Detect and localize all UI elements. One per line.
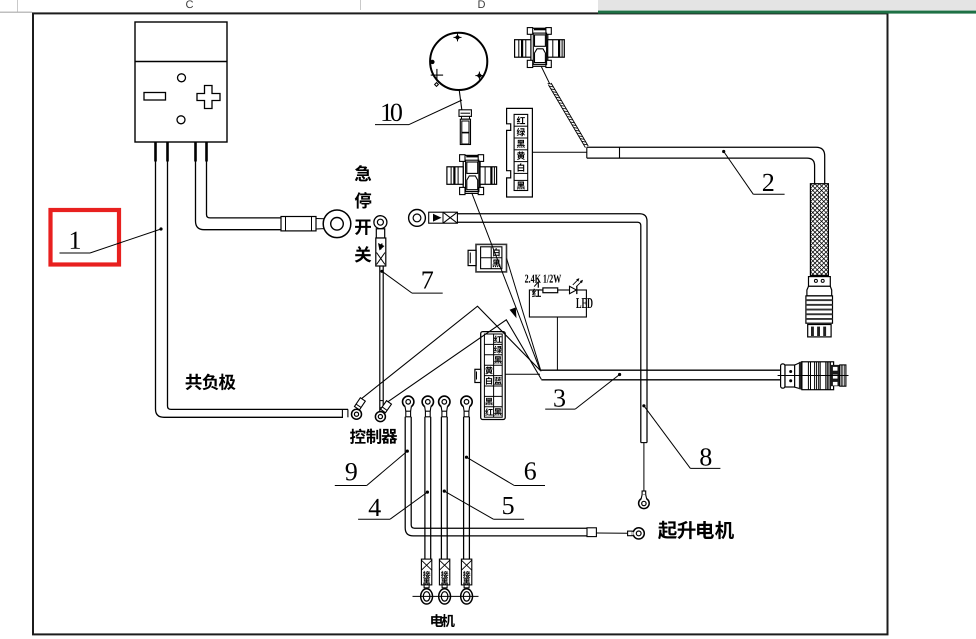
controller terminal 1: [354, 398, 365, 410]
switch crimp: [376, 229, 384, 238]
switch ring terminal: [374, 216, 387, 229]
positive cable crimp: [281, 217, 316, 231]
lift motor ring terminal: [628, 531, 633, 536]
wire from X2 to junction: [472, 193, 541, 371]
wire 6 cable: [463, 417, 465, 559]
terminal centerline: [413, 595, 479, 597]
harness wire B to junction: [388, 320, 542, 402]
label 9: [406, 450, 409, 453]
label 1 red highlight box: [51, 210, 120, 265]
LED symbol: [570, 286, 577, 293]
label 10: [382, 104, 391, 121]
battery plus symbol: [197, 86, 220, 109]
wire 1 negative cable: [156, 161, 344, 417]
wire 2 collar band: [809, 277, 831, 287]
wire positive cable: [196, 161, 282, 230]
spreadsheet gridlines: [17, 0, 19, 12]
wire 4 cable: [424, 417, 426, 559]
wire from J6 to wire 2: [532, 151, 586, 153]
connector J6 color strip: [507, 108, 533, 197]
wire 3 cable: [540, 369, 782, 371]
connector J14 controller: [481, 332, 506, 420]
battery hole top: [178, 74, 186, 82]
text emergency stop switch: [355, 165, 371, 181]
battery hole bottom: [177, 116, 185, 124]
wire 5 cable: [440, 417, 442, 559]
J14 latch: [475, 369, 481, 382]
label 4: [426, 491, 429, 494]
horn connector: [459, 110, 471, 117]
connector J2 white black: [476, 244, 507, 272]
lift motor wire crimp: [587, 528, 596, 537]
green underline bar: [598, 11, 976, 14]
column header D: [478, 0, 485, 8]
wire 2 taper: [807, 286, 832, 296]
wire J14 to junction: [505, 373, 540, 375]
wire 9 cable: [405, 417, 587, 536]
wire 3 plug connector: [781, 364, 785, 388]
connector X1 cross type: [531, 28, 548, 66]
LED text: [576, 298, 581, 308]
wire 2 cable: [587, 147, 825, 183]
label 3: [618, 373, 621, 376]
gray toolbar strip: [598, 0, 976, 11]
wire 2 ribbed plug: [806, 296, 833, 323]
wire 1 end sleeve: [341, 409, 343, 417]
horn lead: [459, 90, 462, 110]
battery terminal stubs: [154, 142, 157, 162]
resistor: [543, 288, 558, 293]
battery minus symbol: [144, 93, 166, 101]
wire LED to harness: [556, 317, 558, 370]
connector X2 cross type: [463, 155, 480, 193]
wire 2 end cap: [808, 325, 831, 337]
label 7: [380, 270, 383, 273]
controller terminal 2: [381, 401, 392, 413]
lead from X1: [541, 67, 549, 84]
text common negative: [186, 374, 202, 390]
hatched sheath: [548, 85, 585, 148]
label 6: [465, 456, 468, 459]
wire from J2 to junction: [507, 259, 541, 372]
flow arrow: [510, 308, 516, 317]
red wire tag: [532, 288, 541, 297]
wire 2 braided sleeve: [810, 184, 828, 276]
battery B1: [135, 22, 227, 142]
motor terminal lugs: [421, 559, 431, 585]
text motor: [431, 614, 443, 627]
wire color labels: [517, 116, 525, 124]
label 8: [642, 404, 645, 407]
horn H1: [430, 33, 487, 90]
wire 8 ring terminal: [642, 491, 646, 495]
text controller: [350, 429, 366, 444]
label 5: [443, 490, 446, 493]
harness wire A to junction: [362, 306, 541, 399]
text lift motor: [658, 521, 677, 540]
LED circuit box: [529, 290, 586, 317]
positive ring terminal: [323, 210, 351, 238]
switch body: [376, 238, 386, 266]
diode block: [429, 212, 458, 223]
wire from switch to controller: [379, 266, 381, 412]
motor wire ring terminals: [403, 396, 414, 407]
column header C: [186, 0, 193, 8]
label 2: [722, 150, 725, 153]
pin labels: [494, 335, 502, 342]
ring terminal on sense wire: [409, 210, 426, 227]
label 1: [71, 232, 80, 249]
wire 8 cable: [457, 214, 647, 443]
